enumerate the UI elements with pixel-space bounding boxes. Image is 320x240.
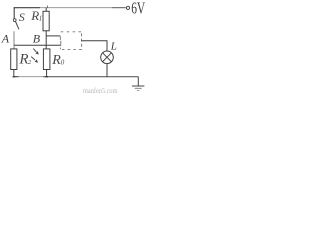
- svg-text:B: B: [33, 32, 41, 46]
- wire horizontal B column to black box (upper tap): [46, 35, 60, 37]
- photoresistor arrow 2: [31, 57, 38, 63]
- switch S blade: [16, 22, 19, 30]
- svg-text:R: R: [51, 53, 61, 68]
- wire black box to lamp: [81, 41, 107, 51]
- wire left below switch to R2: [13, 31, 15, 49]
- wire below R2: [13, 70, 15, 77]
- switch S contact: [13, 19, 16, 22]
- svg-text:manfen5.com: manfen5.com: [83, 88, 118, 95]
- svg-text:L: L: [110, 40, 117, 52]
- node junction R2-rail: [13, 76, 16, 78]
- svg-text:1: 1: [39, 14, 43, 22]
- black box dashed bottom edge: [62, 49, 85, 51]
- wire below R0: [46, 70, 48, 77]
- node 6V terminal: [126, 6, 129, 9]
- black box dashed right edge: [81, 33, 83, 49]
- resistor R2: [11, 49, 17, 70]
- wire drop to ground: [137, 77, 139, 86]
- svg-text:0: 0: [61, 58, 65, 66]
- svg-text:A: A: [1, 31, 10, 45]
- wire top rail: [14, 7, 40, 9]
- wire left from top rail to switch: [13, 7, 15, 18]
- wire B column R1 bottom to R0 top: [45, 31, 47, 49]
- node junction tick above rail: [47, 6, 49, 8]
- photoresistor arrow 1: [33, 49, 38, 55]
- wire horizontal A-column to black box (lower tap): [14, 44, 61, 46]
- svg-text:S: S: [19, 10, 25, 24]
- black box dashed left edge: [59, 36, 62, 49]
- wire below lamp: [106, 64, 108, 77]
- lamp L: [101, 51, 114, 64]
- resistor R0: [43, 49, 50, 70]
- wire bottom rail: [13, 76, 19, 78]
- svg-text:6V: 6V: [131, 0, 145, 18]
- wire R1 top stub: [45, 8, 47, 12]
- ground: [132, 85, 145, 87]
- black box dashed top edge: [61, 31, 82, 33]
- resistor R1: [43, 11, 49, 31]
- node junction R0-rail: [45, 76, 48, 78]
